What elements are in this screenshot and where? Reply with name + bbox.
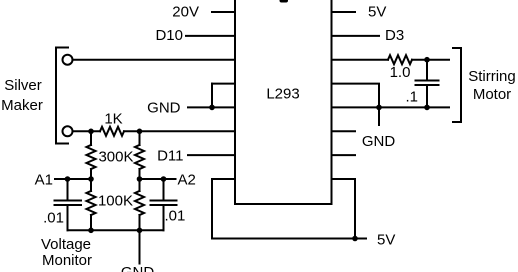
wire pin7 left D11 xyxy=(188,154,235,156)
svg-text:5V: 5V xyxy=(368,4,386,21)
wire divider2 lower xyxy=(139,215,141,230)
svg-text:Voltage: Voltage xyxy=(41,236,91,253)
svg-text:.1: .1 xyxy=(405,89,418,106)
svg-text:300K: 300K xyxy=(98,149,133,166)
resistor R4 100K left xyxy=(87,191,96,215)
op-amp U1 xyxy=(235,0,332,204)
capacitor C3 .1 xyxy=(416,60,439,108)
wire divider2 mid xyxy=(139,169,141,191)
wire monitor rail xyxy=(68,229,164,231)
wire pin7 right stub xyxy=(332,154,356,156)
svg-text:Maker: Maker xyxy=(1,97,43,114)
svg-text:GND: GND xyxy=(362,133,396,150)
svg-text:D3: D3 xyxy=(385,27,404,44)
wire pin5 right motor bottom xyxy=(332,106,450,108)
wire pin6 right stub xyxy=(332,130,356,132)
svg-text:A2: A2 xyxy=(178,172,196,189)
cropped title fragment xyxy=(280,0,289,3)
junction 5V xyxy=(352,236,358,242)
junction GND left xyxy=(209,105,215,111)
junction A2 cap xyxy=(161,176,167,182)
svg-text:Monitor: Monitor xyxy=(42,252,92,269)
svg-text:1.0: 1.0 xyxy=(390,64,411,81)
svg-text:D11: D11 xyxy=(157,148,183,165)
junction motor cap top xyxy=(424,57,430,63)
svg-text:.01: .01 xyxy=(43,210,64,227)
svg-text:D10: D10 xyxy=(155,27,183,44)
wire divider1 upper xyxy=(90,131,92,145)
svg-text:Silver: Silver xyxy=(4,77,42,94)
wire pin8 left 5V loop xyxy=(212,179,235,239)
wire 5V bottom rail xyxy=(212,238,366,240)
svg-text:100K: 100K xyxy=(98,193,133,210)
svg-text:1K: 1K xyxy=(104,111,122,128)
junction motor cap bottom xyxy=(424,105,430,111)
svg-text:20V: 20V xyxy=(172,4,199,21)
wire gnd tap right xyxy=(378,107,380,125)
svg-text:5V: 5V xyxy=(377,232,395,249)
wire pin6 left segment a xyxy=(74,130,101,132)
resistor R5 100K right xyxy=(135,191,144,215)
wire pin2 right D3 xyxy=(332,35,380,37)
wire pin2 left D10 xyxy=(186,35,235,37)
wire divider2 upper xyxy=(139,131,141,145)
junction divider2 top xyxy=(137,129,143,135)
wire pin3 left from terminal xyxy=(73,59,236,61)
wire pin4 right xyxy=(332,84,380,108)
wire pin8 right 5V loop xyxy=(332,179,356,239)
junction divider1 top xyxy=(88,129,94,135)
resistor R1 1K xyxy=(100,127,124,136)
wire divider1 mid xyxy=(90,169,92,191)
svg-text:Stirring: Stirring xyxy=(468,68,516,85)
wire to GND bottom xyxy=(139,230,141,263)
svg-text:Motor: Motor xyxy=(473,86,511,103)
wire node A2 xyxy=(140,178,176,180)
svg-text:A1: A1 xyxy=(35,172,53,189)
capacitor C2 .01 right xyxy=(151,179,177,230)
svg-text:GND: GND xyxy=(121,264,155,272)
resistor R3 300K right xyxy=(135,145,144,169)
junction rail left xyxy=(88,228,94,234)
junction A1 divider xyxy=(88,176,94,182)
wire pin5 left GND xyxy=(188,106,235,108)
wire divider1 lower xyxy=(90,215,92,230)
svg-text:GND: GND xyxy=(147,100,181,117)
wire pin1 right 5V xyxy=(332,11,356,13)
svg-text:.01: .01 xyxy=(165,208,186,225)
terminal circle top xyxy=(63,55,73,65)
wire pin4 left GND step top xyxy=(212,83,235,85)
wire pin1 left 20V xyxy=(212,11,235,13)
svg-text:L293: L293 xyxy=(266,86,299,103)
wire GND step vertical xyxy=(211,84,213,108)
wire pin6 left segment b xyxy=(124,130,235,132)
bracket stirring motor xyxy=(453,48,461,122)
resistor R2 300K left xyxy=(87,145,96,169)
bracket silver maker xyxy=(56,48,68,144)
junction A1 cap xyxy=(65,176,71,182)
capacitor C1 .01 left xyxy=(55,179,82,230)
resistor R6 1.0 xyxy=(388,55,412,64)
wire pin3 right segment b xyxy=(412,59,449,61)
wire pin3 right segment a xyxy=(332,59,389,61)
junction rail right xyxy=(137,228,143,234)
junction A2 divider xyxy=(137,176,143,182)
junction right gnd xyxy=(376,105,382,111)
wire node A1 xyxy=(55,178,91,180)
terminal circle bottom xyxy=(63,126,73,136)
